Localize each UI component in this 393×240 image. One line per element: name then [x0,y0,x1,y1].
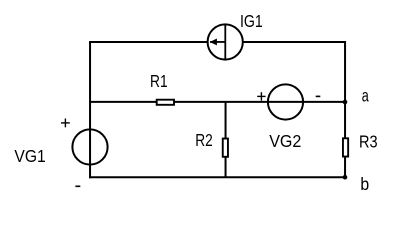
svg-text:IG1: IG1 [240,11,263,31]
voltage source VG1 [72,129,107,164]
VG1 minus sign [75,185,80,187]
svg-text:VG2: VG2 [269,131,301,151]
wire bottom [89,176,346,178]
wire top-right segment [242,41,346,43]
svg-text:a: a [362,86,369,106]
svg-text:R2: R2 [195,130,213,150]
wire right vertical [344,41,346,178]
current source IG1 [208,24,243,59]
node b [343,175,348,180]
wire top-left segment [89,41,208,43]
VG2 plus sign [257,92,265,100]
svg-text:VG1: VG1 [14,146,45,166]
wire left vertical [89,41,91,178]
svg-text:b: b [360,174,369,194]
resistor R3 [343,138,348,156]
svg-text:R3: R3 [359,131,378,151]
wire R2 branch vertical [225,102,227,177]
svg-text:R1: R1 [150,71,168,91]
resistor R1 [157,100,174,105]
VG1 plus sign [61,119,70,128]
voltage source VG2 [268,84,303,119]
node a [343,100,348,105]
VG2 minus sign [316,95,321,97]
wire middle horizontal [89,101,345,103]
resistor R2 [223,139,228,157]
